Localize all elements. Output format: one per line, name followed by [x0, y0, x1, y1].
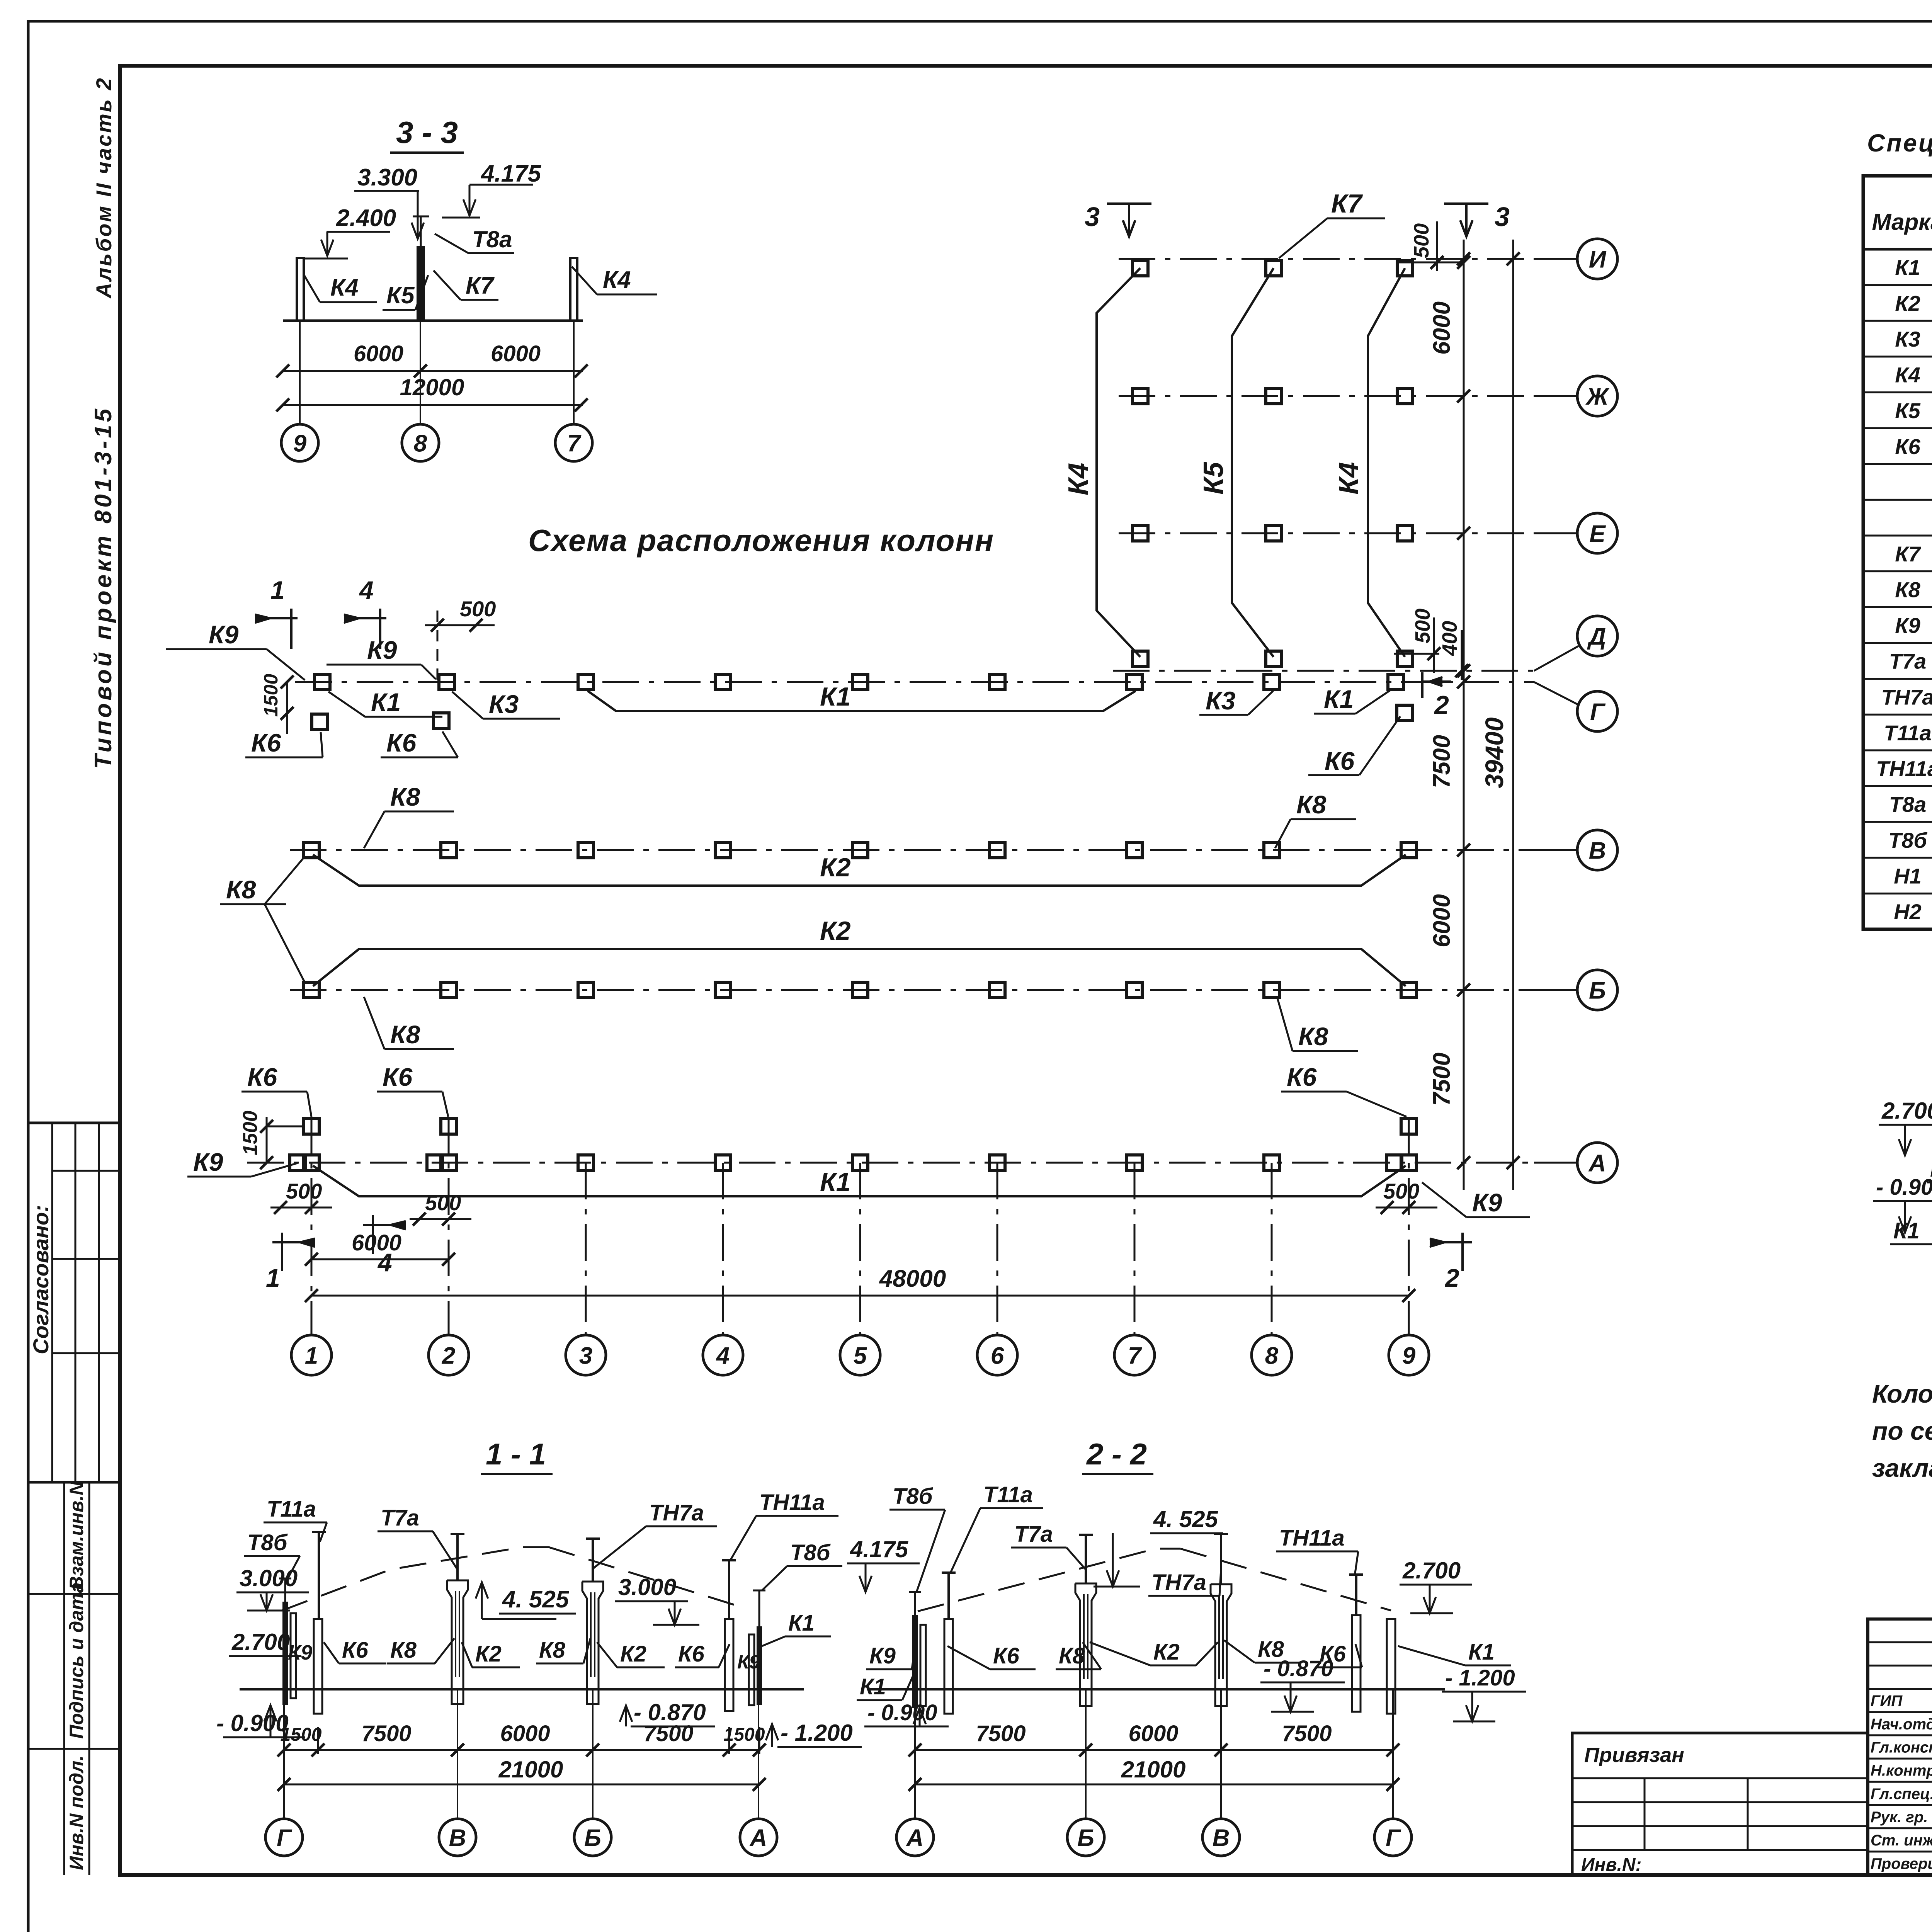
svg-text:Ст. инж.: Ст. инж. — [1871, 1832, 1932, 1849]
svg-text:7500: 7500 — [1429, 735, 1455, 788]
svg-text:Спецификация элементов к схеме: Спецификация элементов к схеме, располож… — [1867, 129, 1932, 157]
svg-text:Согласовано:: Согласовано: — [29, 1205, 53, 1354]
column axis 9 — [1408, 1117, 1410, 1334]
svg-text:Т11а: Т11а — [267, 1497, 316, 1522]
svg-text:К9: К9 — [288, 1641, 312, 1664]
svg-text:4. 525: 4. 525 — [502, 1586, 570, 1613]
svg-text:8: 8 — [1265, 1342, 1279, 1369]
column axis 5 — [859, 1163, 861, 1334]
svg-text:К6: К6 — [678, 1641, 705, 1667]
svg-text:1: 1 — [305, 1342, 318, 1369]
svg-text:ТН11а: ТН11а — [759, 1490, 825, 1515]
column K6 at A — [725, 1619, 733, 1711]
svg-text:3 - 3: 3 - 3 — [396, 115, 458, 150]
antenna T11a at G — [318, 1532, 320, 1619]
column K1 at G 2-2 — [1387, 1619, 1395, 1714]
svg-text:К7: К7 — [1331, 189, 1363, 218]
svg-text:К4: К4 — [1895, 363, 1920, 387]
svg-text:4.175: 4.175 — [480, 160, 542, 187]
dim chain 7500-6000 — [1463, 240, 1465, 1190]
dim 6000 6000 3-3 — [283, 370, 583, 372]
svg-text:К9: К9 — [737, 1651, 760, 1673]
squares row B — [304, 982, 319, 998]
svg-text:К1: К1 — [788, 1611, 815, 1636]
axis row I — [1119, 258, 1534, 260]
svg-text:2.700: 2.700 — [231, 1629, 290, 1655]
svg-text:- 1.200: - 1.200 — [1445, 1665, 1515, 1690]
svg-text:Типовой проект 801-3-15: Типовой проект 801-3-15 — [90, 406, 117, 769]
svg-text:Т11а: Т11а — [983, 1482, 1033, 1507]
svg-text:39400: 39400 — [1480, 717, 1509, 788]
svg-text:К6: К6 — [1287, 1063, 1317, 1091]
svg-text:- 0.900: - 0.900 — [1876, 1175, 1932, 1200]
axis circle E — [1577, 513, 1617, 553]
svg-text:Г: Г — [1386, 1825, 1401, 1851]
svg-text:К2: К2 — [820, 853, 851, 882]
column K2 at V 2-2 — [1211, 1584, 1231, 1706]
svg-text:Нач.отд.: Нач.отд. — [1871, 1716, 1932, 1733]
axis circle G — [1577, 691, 1617, 731]
column circle 1 — [291, 1335, 332, 1375]
svg-text:400: 400 — [1438, 621, 1461, 656]
roof dashed 2-2 — [918, 1549, 1180, 1611]
K9 offset squares row A — [290, 1155, 305, 1170]
svg-text:6: 6 — [991, 1342, 1004, 1369]
antenna T7a at V — [456, 1534, 459, 1580]
section mark 2 right — [1421, 672, 1423, 698]
column K4 left 3-3 — [297, 258, 304, 321]
svg-text:Н1: Н1 — [1894, 864, 1922, 888]
privyazan box — [1572, 1733, 1868, 1875]
svg-text:7500: 7500 — [1429, 1053, 1455, 1106]
svg-text:К1: К1 — [371, 688, 401, 716]
svg-text:3.300: 3.300 — [357, 164, 417, 191]
svg-text:3: 3 — [579, 1342, 592, 1369]
svg-text:Г: Г — [277, 1825, 293, 1851]
svg-text:6000: 6000 — [491, 341, 541, 366]
svg-text:К8: К8 — [390, 1020, 420, 1049]
svg-text:Схема расположения колонн: Схема расположения колонн — [528, 523, 994, 558]
svg-text:Н.контр.: Н.контр. — [1871, 1762, 1932, 1779]
svg-text:4: 4 — [359, 576, 374, 604]
axis circle D — [1577, 616, 1617, 656]
column K6 at A 2-2 — [944, 1619, 953, 1714]
svg-text:21000: 21000 — [498, 1757, 563, 1782]
bracket K1 row A — [313, 1166, 1406, 1196]
svg-text:К8: К8 — [1895, 577, 1920, 602]
column circle 4 — [703, 1335, 743, 1375]
squares row V — [304, 842, 319, 858]
svg-text:Т7а: Т7а — [1889, 649, 1927, 673]
svg-text:Т8а: Т8а — [1889, 792, 1927, 816]
dim 48000 — [311, 1295, 1409, 1297]
column K4 right 3-3 — [570, 258, 577, 321]
antenna TN7a at V 2-2 — [1220, 1534, 1222, 1584]
column K2 at V — [447, 1580, 468, 1704]
dim 1500 col1 — [267, 1126, 304, 1128]
column circle 6 — [977, 1335, 1017, 1375]
dim 6000 cols 1-2 — [311, 1259, 449, 1260]
svg-text:7500: 7500 — [976, 1721, 1026, 1746]
column axis 3 — [585, 1163, 587, 1334]
svg-text:К5: К5 — [1895, 398, 1920, 423]
axis row E — [1119, 532, 1534, 534]
svg-text:К6: К6 — [247, 1063, 278, 1091]
column squares top block — [1133, 260, 1148, 276]
svg-text:К1: К1 — [1324, 685, 1354, 713]
svg-text:К4: К4 — [330, 274, 359, 301]
svg-text:7500: 7500 — [1282, 1721, 1332, 1746]
svg-text:закладной детали М-2.: закладной детали М-2. — [1872, 1454, 1932, 1482]
svg-text:В: В — [449, 1825, 466, 1851]
svg-text:Т8б: Т8б — [247, 1530, 288, 1555]
svg-text:Проверил: Проверил — [1871, 1855, 1932, 1872]
grid circles 9 8 7 — [281, 424, 318, 461]
squares row A — [304, 1155, 319, 1170]
ground line 2-2 — [869, 1688, 1445, 1690]
svg-text:6000: 6000 — [1429, 894, 1455, 947]
bracket K5 middle — [1232, 268, 1274, 657]
svg-text:1: 1 — [270, 576, 285, 604]
column circle 5 — [840, 1335, 880, 1375]
svg-text:Б: Б — [1589, 977, 1606, 1004]
svg-text:Ж: Ж — [1585, 383, 1610, 410]
axis row G — [295, 681, 1534, 683]
svg-text:А: А — [906, 1825, 924, 1851]
bracket K4 right — [1368, 268, 1405, 657]
svg-text:К6: К6 — [342, 1638, 369, 1663]
svg-text:К3: К3 — [1206, 686, 1235, 715]
svg-text:К2: К2 — [1895, 291, 1920, 315]
ground line 3-3 — [283, 320, 583, 322]
svg-text:1500: 1500 — [239, 1111, 262, 1155]
svg-text:Н2: Н2 — [1894, 900, 1922, 924]
axis row B — [290, 989, 1534, 991]
svg-text:К9: К9 — [367, 636, 397, 664]
bracket K2 row B — [313, 949, 1406, 986]
svg-text:500: 500 — [425, 1190, 461, 1215]
section mark 4 top — [344, 617, 386, 619]
svg-text:8: 8 — [414, 430, 427, 457]
svg-text:Т8б: Т8б — [790, 1540, 831, 1565]
svg-text:К9: К9 — [1895, 613, 1920, 638]
dim 1500 row G left — [286, 682, 288, 734]
svg-text:Гл.констр.: Гл.констр. — [1871, 1739, 1932, 1756]
dim 500 col9 row A — [1376, 1207, 1437, 1209]
axis circle I — [1577, 239, 1617, 279]
svg-text:В: В — [1589, 837, 1606, 864]
svg-text:1500: 1500 — [260, 674, 282, 717]
section mark 1 top — [255, 617, 298, 619]
svg-text:К5: К5 — [1198, 462, 1229, 495]
dim line 7500 6000 7500 2-2 — [915, 1749, 1393, 1751]
column circle 7 — [1114, 1335, 1155, 1375]
section mark 3 right — [1444, 202, 1488, 205]
dim line 7500 6000 7500 1-1 — [284, 1749, 759, 1751]
svg-text:6000: 6000 — [1128, 1721, 1178, 1746]
column K2 at B — [582, 1582, 603, 1704]
axis row V — [290, 849, 1534, 851]
squares row G — [315, 674, 330, 690]
svg-text:- 1.200: - 1.200 — [781, 1720, 853, 1746]
svg-text:Т11а: Т11а — [1884, 721, 1931, 745]
svg-text:К2: К2 — [820, 916, 851, 946]
svg-text:2: 2 — [442, 1342, 455, 1369]
svg-text:Рук. гр.: Рук. гр. — [1871, 1809, 1928, 1826]
ground line 1-1 — [240, 1688, 804, 1690]
column K1 K9 dark at A — [757, 1626, 762, 1705]
column circle 2 — [429, 1335, 469, 1375]
svg-text:1: 1 — [266, 1264, 280, 1292]
svg-text:К6: К6 — [993, 1643, 1020, 1668]
antenna T8b at A 2-2 — [914, 1592, 916, 1615]
axis row A — [247, 1162, 1534, 1164]
svg-text:7: 7 — [1128, 1342, 1142, 1369]
svg-text:3: 3 — [1085, 202, 1100, 232]
extension to circles 1-1 — [283, 1689, 285, 1819]
svg-text:2: 2 — [1444, 1264, 1459, 1292]
K6 squares below G — [312, 714, 327, 730]
roof dashed 1-1 — [282, 1547, 549, 1611]
column axis 4 — [722, 1163, 724, 1334]
svg-text:6000: 6000 — [354, 341, 403, 366]
dim chain 39400 — [1512, 240, 1514, 1190]
svg-text:2.400: 2.400 — [336, 205, 396, 231]
svg-text:Взам.инв.N: Взам.инв.N — [66, 1481, 87, 1590]
column circle 9 — [1389, 1335, 1429, 1375]
svg-text:9: 9 — [1402, 1342, 1416, 1369]
svg-text:Гл.спец.: Гл.спец. — [1871, 1786, 1932, 1803]
svg-text:К9: К9 — [1930, 1156, 1932, 1182]
K6 squares above A — [304, 1119, 319, 1134]
svg-text:500: 500 — [1383, 1179, 1419, 1203]
antenna TN11a at A — [728, 1560, 730, 1619]
svg-text:К2: К2 — [475, 1641, 502, 1667]
svg-text:500: 500 — [286, 1179, 322, 1203]
svg-text:А: А — [749, 1825, 767, 1851]
svg-text:Альбом II часть 2: Альбом II часть 2 — [92, 77, 116, 299]
bracket K1 row G — [588, 691, 1136, 711]
svg-text:К1: К1 — [1895, 255, 1920, 280]
dim 21000 1-1 — [284, 1784, 759, 1786]
antenna TN11a at G 2-2 — [1355, 1575, 1357, 1615]
svg-text:Б: Б — [584, 1825, 601, 1851]
svg-text:2 - 2: 2 - 2 — [1086, 1437, 1147, 1471]
svg-text:2: 2 — [1434, 690, 1449, 720]
svg-text:ТН7а: ТН7а — [649, 1500, 704, 1526]
bracket K2 row V — [313, 855, 1406, 886]
svg-text:5: 5 — [854, 1342, 867, 1369]
svg-text:Е: Е — [1589, 520, 1606, 547]
svg-text:К6: К6 — [383, 1063, 413, 1091]
svg-text:К1: К1 — [820, 1167, 851, 1197]
antenna T8b at G — [284, 1578, 286, 1602]
svg-text:К6: К6 — [251, 728, 282, 757]
svg-text:К1: К1 — [820, 682, 851, 711]
svg-text:Инв.N подл.: Инв.N подл. — [66, 1755, 87, 1870]
svg-text:К6: К6 — [1325, 747, 1355, 775]
antenna T11a at A 2-2 — [947, 1573, 950, 1619]
svg-text:К8: К8 — [390, 782, 420, 811]
svg-text:К8: К8 — [1296, 790, 1327, 819]
svg-text:К9: К9 — [869, 1643, 896, 1668]
svg-text:Т8а: Т8а — [472, 226, 512, 252]
section mark 2 bottom — [1430, 1241, 1472, 1243]
svg-text:ТН7а: ТН7а — [1881, 685, 1932, 709]
svg-text:Т7а: Т7а — [381, 1505, 419, 1531]
svg-text:4. 525: 4. 525 — [1153, 1506, 1218, 1532]
svg-text:К3: К3 — [489, 690, 519, 718]
column K5 K7 middle 3-3 — [417, 246, 425, 321]
svg-text:К8: К8 — [390, 1638, 417, 1663]
svg-text:12000: 12000 — [400, 374, 464, 400]
extension to circles 2-2 — [914, 1689, 916, 1819]
svg-text:6000: 6000 — [500, 1721, 550, 1746]
svg-text:К7: К7 — [1895, 542, 1921, 566]
svg-text:К4: К4 — [1063, 463, 1094, 495]
svg-text:К9: К9 — [193, 1148, 223, 1176]
svg-text:6000: 6000 — [1429, 301, 1455, 355]
svg-text:7500: 7500 — [361, 1721, 411, 1746]
dim 12000 3-3 — [283, 404, 583, 406]
svg-text:К8: К8 — [539, 1638, 566, 1663]
svg-text:48000: 48000 — [879, 1265, 946, 1292]
svg-text:500: 500 — [1411, 609, 1434, 643]
titleblock signature table — [1868, 1619, 1932, 1875]
dim label 500 top — [1396, 262, 1464, 264]
column circle 3 — [566, 1335, 606, 1375]
svg-text:Колонна СК2-36-1а отличаетс: Колонна СК2-36-1а отличается от колонны … — [1872, 1379, 1932, 1408]
svg-text:К1: К1 — [1893, 1218, 1920, 1243]
svg-text:К5: К5 — [386, 282, 415, 309]
svg-text:К4: К4 — [1333, 462, 1364, 495]
svg-text:К7: К7 — [466, 272, 495, 299]
svg-text:А: А — [1588, 1150, 1606, 1177]
svg-text:Т7а: Т7а — [1014, 1522, 1053, 1547]
svg-text:6000: 6000 — [352, 1230, 401, 1255]
svg-text:4: 4 — [716, 1342, 730, 1369]
svg-text:К3: К3 — [1895, 327, 1920, 351]
axis circle Zh — [1577, 376, 1617, 416]
svg-text:К6: К6 — [1895, 434, 1920, 459]
svg-text:Д: Д — [1587, 623, 1606, 650]
svg-text:Подпись и дата: Подпись и дата — [66, 1582, 87, 1739]
svg-text:К4: К4 — [603, 267, 631, 293]
antenna TN7a at B — [592, 1539, 594, 1582]
axis row D — [1113, 670, 1534, 672]
svg-text:К9: К9 — [1472, 1188, 1502, 1217]
antenna T7a at B 2-2 — [1085, 1535, 1087, 1583]
svg-text:И: И — [1589, 246, 1607, 273]
section mark 3 left — [1107, 202, 1151, 205]
antenna T8b at A — [759, 1590, 760, 1626]
column axis 6 — [997, 1163, 998, 1334]
svg-text:21000: 21000 — [1121, 1757, 1186, 1782]
svg-text:Т8б: Т8б — [1888, 828, 1927, 852]
svg-text:К1: К1 — [1468, 1639, 1495, 1665]
svg-text:ТН11а: ТН11а — [1279, 1526, 1345, 1551]
margin table Soglasovano — [28, 1122, 120, 1124]
svg-text:К9: К9 — [209, 620, 239, 649]
svg-text:2.700: 2.700 — [1881, 1098, 1932, 1124]
section mark 1 bottom — [272, 1241, 315, 1243]
svg-text:ТН11а: ТН11а — [1876, 757, 1932, 781]
dim 21000 2-2 — [915, 1784, 1393, 1786]
svg-text:1 - 1: 1 - 1 — [486, 1437, 546, 1471]
svg-text:К8: К8 — [1298, 1022, 1328, 1051]
margin table bottom — [63, 1482, 65, 1875]
column circle 8 — [1252, 1335, 1292, 1375]
column axis 1 — [311, 1117, 313, 1334]
svg-text:ТН7а: ТН7а — [1151, 1570, 1206, 1595]
svg-text:К1: К1 — [860, 1674, 886, 1699]
dim 500 col2 row A — [410, 1218, 471, 1220]
axis circle V — [1577, 830, 1617, 870]
axis row Zh — [1119, 395, 1534, 397]
dim 500 row G — [425, 624, 495, 626]
svg-text:1500: 1500 — [281, 1725, 322, 1745]
svg-text:К6: К6 — [386, 728, 417, 757]
svg-text:К8: К8 — [226, 875, 256, 904]
svg-text:7: 7 — [567, 430, 582, 457]
svg-text:4.175: 4.175 — [850, 1536, 909, 1562]
svg-text:Т8б: Т8б — [893, 1484, 934, 1509]
svg-text:Инв.N:: Инв.N: — [1581, 1855, 1642, 1875]
svg-text:В: В — [1213, 1825, 1230, 1851]
svg-text:3: 3 — [1495, 202, 1510, 232]
svg-text:500: 500 — [460, 597, 496, 621]
svg-text:Г: Г — [1590, 699, 1606, 725]
svg-text:К2: К2 — [1153, 1639, 1180, 1665]
column K6 at G 2-2 — [1352, 1615, 1361, 1712]
bracket K4 left — [1097, 268, 1140, 657]
svg-text:Привязан: Привязан — [1584, 1743, 1684, 1767]
svg-text:500: 500 — [1410, 223, 1433, 258]
svg-text:7500: 7500 — [643, 1721, 693, 1746]
section mark 4 bottom — [363, 1224, 406, 1226]
axis circle B — [1577, 970, 1617, 1010]
svg-text:- 0.870: - 0.870 — [1264, 1656, 1333, 1681]
column axis 8 — [1271, 1163, 1273, 1334]
column K2 at B 2-2 — [1075, 1583, 1096, 1706]
svg-text:К8: К8 — [1059, 1643, 1085, 1668]
column K9 K1 dark at A 2-2 — [912, 1615, 918, 1708]
dim 500 col1 row A — [270, 1207, 332, 1209]
svg-text:по серии 1.823-1 вып.1 нал: по серии 1.823-1 вып.1 наличием дополнит… — [1872, 1417, 1932, 1445]
column axis 2 — [448, 1117, 450, 1334]
svg-text:3.000: 3.000 — [618, 1574, 676, 1600]
svg-text:Б: Б — [1077, 1825, 1094, 1851]
extension lines 3-3 — [299, 321, 301, 423]
svg-text:К2: К2 — [620, 1641, 646, 1667]
svg-text:ГИП: ГИП — [1871, 1692, 1903, 1709]
column K9 dark at G — [282, 1602, 288, 1705]
column axis 7 — [1134, 1163, 1136, 1334]
svg-text:- 0.900: - 0.900 — [216, 1710, 289, 1736]
svg-text:Марка: Марка — [1872, 209, 1932, 235]
svg-text:9: 9 — [293, 430, 307, 457]
column K6 at G — [314, 1619, 322, 1714]
axis circle A — [1577, 1143, 1617, 1183]
spec table grid — [1863, 176, 1932, 929]
svg-text:2.700: 2.700 — [1402, 1558, 1461, 1583]
svg-text:- 0.900: - 0.900 — [867, 1700, 937, 1725]
